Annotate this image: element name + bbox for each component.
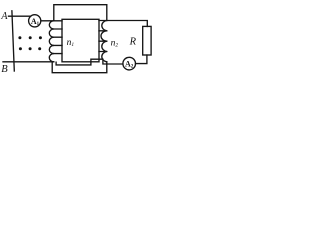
rod AB <box>12 11 14 71</box>
ammeter A1 <box>29 15 41 27</box>
coil n1 crossing ticks <box>54 29 62 54</box>
wire core outer top <box>54 5 107 21</box>
wire A1 to primary <box>41 20 62 22</box>
wire top rail <box>9 15 31 17</box>
wire bottom rail <box>3 61 54 63</box>
ammeter A2 <box>123 57 136 70</box>
coil n1 <box>49 21 54 62</box>
wire A2 to secondary <box>107 63 123 65</box>
svg-text:A: A <box>0 11 8 22</box>
field dots row 2 <box>19 47 41 50</box>
field dots row 1 <box>18 36 42 39</box>
wire secondary top to R <box>99 21 147 27</box>
resistor R <box>143 26 151 55</box>
wire R bottom to A2 <box>136 55 147 64</box>
svg-text:B: B <box>1 64 8 75</box>
core inner rectangle <box>62 19 99 62</box>
coil n2 <box>101 21 107 62</box>
wire core outer bottom <box>52 62 107 73</box>
svg-text:R: R <box>129 37 137 48</box>
coil n2 crossing ticks <box>99 31 107 52</box>
wire primary bottom with bridge jog <box>56 59 107 65</box>
